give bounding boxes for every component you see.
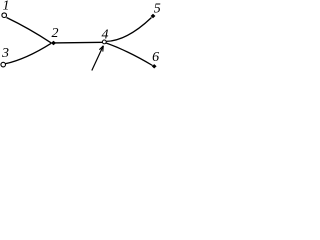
node 4 — [102, 40, 106, 44]
node 1 — [2, 13, 7, 18]
svg-text:1: 1 — [3, 0, 10, 14]
svg-text:5: 5 — [154, 1, 161, 16]
arrow into node 4 — [92, 46, 104, 71]
wire 1-2 — [7, 18, 52, 43]
node 2 — [51, 41, 56, 45]
node 5 — [151, 14, 156, 18]
svg-text:6: 6 — [152, 50, 159, 65]
svg-text:4: 4 — [102, 27, 109, 42]
node 6 — [152, 64, 157, 68]
wire 4-5 — [106, 18, 152, 42]
wire 4-6 — [106, 43, 153, 66]
svg-text:3: 3 — [1, 46, 9, 61]
wire 2-4 — [54, 41, 105, 44]
wire 3-2 — [5, 43, 51, 64]
node 3 — [1, 62, 6, 67]
svg-text:2: 2 — [52, 26, 59, 41]
